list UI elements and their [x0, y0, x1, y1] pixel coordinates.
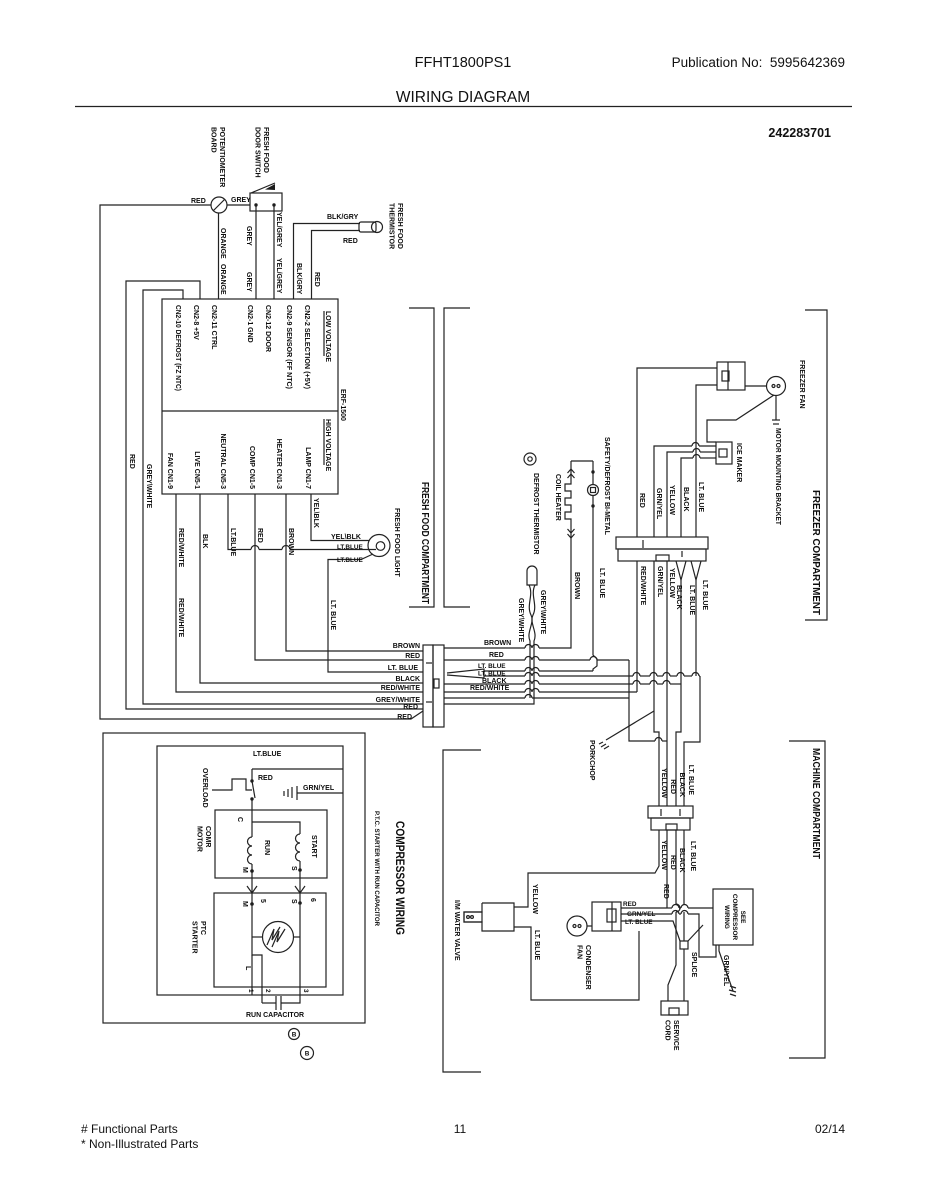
svg-text:RED: RED — [623, 901, 637, 908]
bracket fresh food compartment — [409, 308, 434, 607]
coil heater zigzag — [565, 461, 571, 540]
twist arrow BLACK — [676, 561, 686, 580]
svg-text:LT.BLUE: LT.BLUE — [337, 544, 364, 551]
circled B 1 — [289, 1029, 300, 1040]
svg-text:Publication No: 5995642369: Publication No: 5995642369 — [672, 55, 845, 70]
wire GRN/YEL to ice maker — [654, 446, 692, 537]
svg-text:LT. BLUE: LT. BLUE — [625, 919, 653, 926]
svg-text:ERF-1500: ERF-1500 — [339, 389, 346, 421]
svg-text:I/M WATER VALVE: I/M WATER VALVE — [453, 900, 460, 961]
ptc connect left — [252, 936, 263, 938]
ptc zigzag symbol — [267, 927, 280, 945]
wire RED below connector — [666, 830, 668, 908]
wire BROWN to coil heater — [444, 647, 525, 649]
svg-text:LAMP CN1-7: LAMP CN1-7 — [304, 447, 311, 489]
svg-text:CN2-11 CTRL: CN2-11 CTRL — [210, 305, 217, 350]
wire LT.BLUE water valve loop under condenser fan — [514, 927, 639, 1000]
wire BLK/GRY thermistor to CN2-9 — [294, 224, 361, 300]
ptc starter box — [214, 893, 326, 987]
overload contact + dots — [250, 779, 253, 782]
svg-text:GRN/YEL: GRN/YEL — [722, 955, 729, 987]
wire fan box to motor — [745, 385, 767, 387]
svg-text:LT. BLUE: LT. BLUE — [533, 930, 540, 961]
svg-text:LOW VOLTAGE: LOW VOLTAGE — [324, 311, 331, 362]
wire BLACK to machine bend — [444, 683, 525, 685]
svg-text:LIVE CN5-1: LIVE CN5-1 — [193, 451, 200, 489]
svg-text:M: M — [241, 867, 248, 873]
machine connector block bottom — [651, 818, 690, 830]
wire RED/WHITE to freezer vertical — [444, 691, 525, 693]
defrost thermistor bulb — [527, 566, 537, 585]
svg-text:P.T.C. STARTER WITH RUN CAPACI: P.T.C. STARTER WITH RUN CAPACITOR — [373, 811, 380, 926]
svg-text:6: 6 — [309, 898, 316, 902]
svg-text:YELLOW: YELLOW — [660, 840, 667, 870]
svg-text:GREY\WHITE: GREY\WHITE — [517, 598, 524, 643]
defrost thermistor symbol circle — [524, 453, 536, 465]
wire RED condenser to see-box — [621, 907, 667, 909]
title rule — [75, 106, 852, 108]
svg-text:GREY\WHITE: GREY\WHITE — [145, 464, 152, 509]
wire GRN/YEL ground from see-box — [719, 945, 733, 991]
svg-text:CN2-2 SELECTION (+5V): CN2-2 SELECTION (+5V) — [303, 305, 310, 389]
wire potentiometer to switch — [227, 204, 250, 206]
svg-text:FREEZER FAN: FREEZER FAN — [798, 360, 805, 409]
svg-text:WIRING DIAGRAM: WIRING DIAGRAM — [396, 89, 530, 106]
wire RED to machine bend — [444, 659, 525, 661]
splice diagonal from see-box — [688, 925, 703, 941]
wire RED/WHITE below bar — [636, 561, 638, 692]
svg-text:LT. BLUE: LT. BLUE — [478, 663, 506, 670]
wire LT.BLUE 2 to machine bend — [484, 675, 525, 677]
bracket machine compartment left — [443, 750, 481, 1072]
freezer bar top row — [616, 537, 708, 549]
svg-text:C: C — [236, 817, 243, 822]
svg-text:BLACK: BLACK — [396, 676, 421, 683]
ground hatch — [729, 986, 736, 996]
svg-text:YELLOW: YELLOW — [668, 485, 675, 515]
grn/yel chassis ground symbol — [284, 786, 297, 800]
wire RED freezer fan — [637, 368, 717, 537]
svg-text:RED/WHITE: RED/WHITE — [470, 685, 510, 692]
svg-text:GREY: GREY — [231, 197, 251, 204]
svg-text:BLK/GRY: BLK/GRY — [327, 214, 359, 221]
svg-text:B: B — [292, 1032, 297, 1039]
service cord connector — [661, 1001, 688, 1015]
i/m water valve body — [464, 903, 514, 931]
svg-text:YELLOW: YELLOW — [531, 884, 538, 914]
svg-text:M: M — [241, 901, 248, 907]
svg-text:RED: RED — [256, 528, 263, 543]
connector latch notch — [434, 679, 439, 688]
wire RED loop CN2-8 over board corner — [126, 281, 423, 709]
svg-text:2: 2 — [264, 989, 271, 993]
wire LT.BLUE bend from y676 down and left into bundle — [684, 676, 700, 806]
pin stubs below ptc box — [261, 987, 263, 1003]
svg-text:LT. BLUE: LT. BLUE — [388, 665, 419, 672]
wire BLK LIVE CN5-1 down — [200, 494, 423, 683]
machine connector notch — [666, 824, 677, 830]
compressor outer box — [103, 733, 365, 1023]
svg-text:* Non-Illustrated Parts: * Non-Illustrated Parts — [81, 1137, 198, 1151]
svg-text:FRESH FOODTHERMISTOR: FRESH FOODTHERMISTOR — [388, 203, 404, 249]
wire M down jog to pin2 — [252, 904, 262, 987]
svg-text:YELLOW: YELLOW — [660, 768, 667, 798]
svg-text:LT. BLUE: LT. BLUE — [478, 671, 506, 678]
bracket machine compartment right — [789, 741, 825, 1058]
potentiometer P1 — [211, 197, 227, 213]
safety/defrost bi-metal — [592, 461, 594, 485]
svg-text:LT. BLUE: LT. BLUE — [689, 841, 696, 872]
freezer fan motor — [767, 377, 786, 396]
svg-text:CN2-9 SENSOR (FF NTC): CN2-9 SENSOR (FF NTC) — [285, 305, 292, 389]
svg-text:LT.BLUE: LT.BLUE — [337, 557, 364, 564]
svg-text:BLACK: BLACK — [678, 773, 685, 798]
circled B 2 — [301, 1047, 314, 1060]
svg-text:HIGH VOLTAGE: HIGH VOLTAGE — [324, 419, 331, 472]
svg-text:RED/WHITE: RED/WHITE — [639, 566, 646, 606]
svg-text:ORANGE: ORANGE — [219, 264, 226, 295]
machine connector tick — [660, 809, 662, 816]
svg-text:SPLICE: SPLICE — [690, 952, 697, 978]
svg-text:CN2-8 +5V: CN2-8 +5V — [192, 305, 199, 340]
svg-text:GREY\WHITE: GREY\WHITE — [539, 590, 546, 635]
wire ORANGE potentiometer to CN2-11 — [218, 213, 220, 299]
fresh food thermistor RT1 capsule — [359, 222, 376, 232]
freezer fan connector box — [717, 362, 745, 390]
start winding — [296, 834, 301, 861]
svg-text:START: START — [310, 835, 317, 859]
svg-text:LT.BLUE: LT.BLUE — [253, 751, 282, 758]
coil heater top chevrons — [568, 469, 575, 473]
twist arrow LT.BLUE — [691, 561, 701, 580]
svg-text:YEL/GREY: YEL/GREY — [275, 212, 282, 248]
svg-text:RED: RED — [128, 454, 135, 469]
overload protector symbol — [212, 779, 252, 790]
connector tick 1 — [426, 662, 432, 664]
ptc connect right — [294, 936, 301, 938]
svg-text:RED/WHITE: RED/WHITE — [177, 528, 184, 568]
wire fan motor to box — [587, 925, 592, 927]
wire L pin1 — [251, 955, 253, 995]
svg-text:COIL HEATER: COIL HEATER — [554, 474, 561, 521]
wire LT.BLUE to freezer fan box — [696, 385, 717, 537]
svg-text:COMP CN1-5: COMP CN1-5 — [248, 446, 255, 489]
wire GREY/WHITE loop CN2-10 over board corner — [143, 290, 423, 704]
wire GREY switch to CN2-1 — [255, 205, 257, 299]
wire GRN/YEL below bar step to machine connector — [654, 561, 659, 745]
svg-text:# Functional Parts: # Functional Parts — [81, 1122, 178, 1136]
svg-text:3: 3 — [302, 989, 309, 993]
wire heater top to bi-metal — [571, 460, 593, 462]
svg-text:RED: RED — [662, 884, 669, 899]
svg-text:GREY: GREY — [245, 226, 252, 246]
see compressor wiring box — [713, 889, 753, 945]
svg-text:FRESH FOODDOOR SWITCH: FRESH FOODDOOR SWITCH — [254, 127, 270, 178]
svg-text:LT. BLUE: LT. BLUE — [598, 568, 605, 599]
wire YELLOW to ice maker — [667, 452, 693, 537]
ptc terminal dots — [250, 902, 254, 906]
machine connector block top — [648, 806, 693, 818]
connector tick 2 — [426, 701, 432, 703]
twisted pair arrow LT.BLUE — [447, 669, 484, 678]
svg-text:BLACK: BLACK — [675, 585, 682, 610]
svg-text:HEATER CN1-3: HEATER CN1-3 — [275, 439, 282, 490]
wire YEL/GREY switch to CN2-12 — [273, 205, 275, 299]
thermistor twisted pair GREY/WHITE — [529, 585, 532, 698]
svg-text:B: B — [305, 1051, 310, 1058]
comp motor box — [215, 810, 327, 878]
wire BLACK below bar step left — [676, 580, 681, 806]
svg-text:RED/WHITE: RED/WHITE — [381, 685, 421, 692]
door switch terminal dots — [254, 203, 257, 206]
svg-text:RED: RED — [397, 714, 412, 721]
svg-text:RED: RED — [405, 653, 420, 660]
svg-text:CN2-12 DOOR: CN2-12 DOOR — [264, 305, 271, 352]
door switch S1 — [250, 193, 282, 211]
terminal S dot — [298, 868, 302, 872]
svg-text:RED: RED — [403, 704, 418, 711]
svg-text:S: S — [290, 899, 297, 904]
condenser fan connector box — [592, 902, 621, 931]
svg-text:BLACK: BLACK — [682, 487, 689, 512]
wire GREY horizontal y698 to 629 then down joining RED vertical — [444, 697, 525, 699]
splice square — [680, 941, 688, 949]
svg-text:RED: RED — [343, 238, 358, 245]
wire BLACK below connector to service cord — [675, 830, 677, 904]
run winding — [251, 810, 253, 837]
compressor inner box — [157, 746, 343, 995]
wire bi-metal down LT.BLUE with jog — [593, 495, 597, 671]
svg-text:PORKCHOP: PORKCHOP — [588, 740, 595, 781]
svg-text:GREY: GREY — [245, 272, 252, 292]
svg-text:02/14: 02/14 — [815, 1122, 845, 1136]
svg-text:BLACK: BLACK — [482, 678, 507, 685]
wire YELLOW below bar straight to machine connector — [666, 561, 668, 806]
wire YELLOW to water valve — [514, 830, 659, 907]
svg-text:NEUTRAL CN5-3: NEUTRAL CN5-3 — [219, 434, 226, 490]
svg-text:RUN: RUN — [263, 840, 270, 855]
svg-text:BROWN: BROWN — [393, 643, 420, 650]
svg-text:1: 1 — [247, 989, 254, 993]
wire RED/WHITE FAN CN1-9 down — [176, 494, 423, 692]
wire LT.BLUE below bar — [695, 580, 697, 676]
svg-text:BROWN: BROWN — [484, 640, 511, 647]
svg-text:YEL/GREY: YEL/GREY — [275, 258, 282, 294]
porkchop diagonal — [606, 711, 654, 740]
porkchop squiggle — [599, 742, 609, 749]
svg-text:RED: RED — [638, 493, 645, 508]
wire GRN/YEL condenser loop — [621, 913, 672, 915]
connector body right bar — [433, 645, 444, 727]
wire C branch — [252, 822, 300, 834]
bracket freezer compartment right — [805, 310, 827, 620]
wire outer box left: top edge, left edge, bottom edge, diagonal into connector — [100, 205, 423, 719]
svg-text:MACHINE COMPARTMENT: MACHINE COMPARTMENT — [810, 748, 821, 859]
svg-text:BLK: BLK — [201, 534, 208, 548]
terminal M dot — [250, 869, 254, 873]
svg-text:BROWN: BROWN — [287, 528, 294, 555]
svg-text:LT. BLUE: LT. BLUE — [687, 765, 694, 796]
freezer bar notch — [656, 555, 669, 561]
connector body left bar — [423, 645, 433, 727]
svg-text:5: 5 — [259, 899, 266, 903]
svg-text:LT.BLUE: LT.BLUE — [229, 528, 236, 557]
condenser fan motor — [567, 916, 587, 936]
svg-text:OVERLOAD: OVERLOAD — [201, 768, 208, 808]
fresh food light — [368, 535, 390, 557]
motor mounting bracket symbol — [775, 396, 777, 421]
svg-text:L: L — [244, 966, 251, 971]
svg-text:ICE MAKER: ICE MAKER — [735, 443, 742, 482]
svg-text:DEFROST THERMISTOR: DEFROST THERMISTOR — [532, 473, 539, 555]
freezer bar tick — [642, 540, 644, 548]
svg-text:BROWN: BROWN — [573, 572, 580, 599]
svg-text:CN2-1 GND: CN2-1 GND — [246, 305, 253, 343]
ice maker box — [716, 442, 732, 464]
svg-text:RED: RED — [258, 775, 273, 782]
bracket freezer compartment left — [444, 308, 470, 607]
ptc disc circle — [263, 922, 294, 953]
svg-text:COMPRESSOR WIRING: COMPRESSOR WIRING — [393, 821, 405, 935]
svg-text:RED: RED — [489, 652, 504, 659]
wire fan motor return to ice maker — [707, 395, 774, 442]
wire LT.BLUE condenser to splice — [621, 921, 680, 941]
svg-text:11: 11 — [454, 1122, 467, 1136]
svg-text:YEL\BLK: YEL\BLK — [312, 498, 319, 528]
svg-text:BLK/GRY: BLK/GRY — [295, 263, 302, 295]
wire LT.BLUE below connector through splice — [683, 830, 685, 904]
svg-text:SAFETY/DEFROST BI-METAL: SAFETY/DEFROST BI-METAL — [603, 437, 610, 536]
wire BROWN HEATER CN1-3 down — [286, 494, 423, 651]
svg-text:ORANGE: ORANGE — [219, 228, 226, 259]
svg-text:RED/WHITE: RED/WHITE — [177, 598, 184, 638]
wire RED inside compressor — [252, 768, 343, 770]
board divider low/high voltage — [162, 410, 338, 412]
wire S down pin3 — [299, 903, 301, 995]
svg-text:MOTOR MOUNTING BRACKET: MOTOR MOUNTING BRACKET — [774, 428, 781, 526]
wire LT.BLUE NEUTRAL CN5-3 down with hops — [228, 494, 251, 550]
control board box — [162, 299, 338, 494]
wires M S to ptc with arrowheads — [251, 878, 253, 904]
svg-text:RED: RED — [313, 272, 320, 287]
svg-text:LT. BLUE: LT. BLUE — [701, 580, 708, 611]
svg-text:RUN CAPACITOR: RUN CAPACITOR — [246, 1012, 304, 1019]
svg-text:FRESH FOOD COMPARTMENT: FRESH FOOD COMPARTMENT — [419, 482, 430, 604]
svg-text:CN2-10 DEFROST (FZ NTC): CN2-10 DEFROST (FZ NTC) — [174, 305, 181, 391]
svg-text:FAN CN1-9: FAN CN1-9 — [166, 453, 173, 489]
svg-text:LT. BLUE: LT. BLUE — [688, 585, 695, 616]
wire RED thermistor to CN2-2 — [312, 231, 361, 300]
freezer bar bottom row — [618, 549, 706, 561]
svg-text:S: S — [290, 866, 297, 871]
svg-text:FFHT1800PS1: FFHT1800PS1 — [415, 55, 512, 71]
run capacitor — [262, 1002, 276, 1004]
svg-text:GREY/WHITE: GREY/WHITE — [376, 697, 421, 704]
wire BLACK to ice maker — [681, 458, 693, 537]
svg-text:242283701: 242283701 — [768, 126, 831, 140]
svg-text:RED: RED — [669, 779, 676, 794]
coil heater bottom chevrons — [568, 529, 575, 533]
wire LT.BLUE light lower terminal — [328, 554, 423, 672]
wire YEL\BLK LAMP CN1-7 to light — [311, 494, 369, 541]
wire LT.BLUE to bi-metal — [484, 670, 525, 672]
svg-text:LT. BLUE: LT. BLUE — [329, 600, 336, 631]
svg-text:GRN/YEL: GRN/YEL — [303, 785, 335, 792]
svg-text:GRN/YEL: GRN/YEL — [656, 566, 663, 598]
svg-text:FRESH FOOD LIGHT: FRESH FOOD LIGHT — [393, 508, 400, 578]
svg-text:RED: RED — [191, 198, 206, 205]
svg-text:RED: RED — [669, 855, 676, 870]
svg-text:GRN/YEL: GRN/YEL — [655, 488, 662, 520]
svg-text:YELLOW: YELLOW — [668, 568, 675, 598]
svg-text:FREEZER COMPARTMENT: FREEZER COMPARTMENT — [810, 490, 821, 615]
wire RED COMP CN1-5 down — [255, 494, 423, 660]
svg-text:LT. BLUE: LT. BLUE — [697, 482, 704, 513]
svg-text:YEL\BLK: YEL\BLK — [331, 534, 361, 541]
